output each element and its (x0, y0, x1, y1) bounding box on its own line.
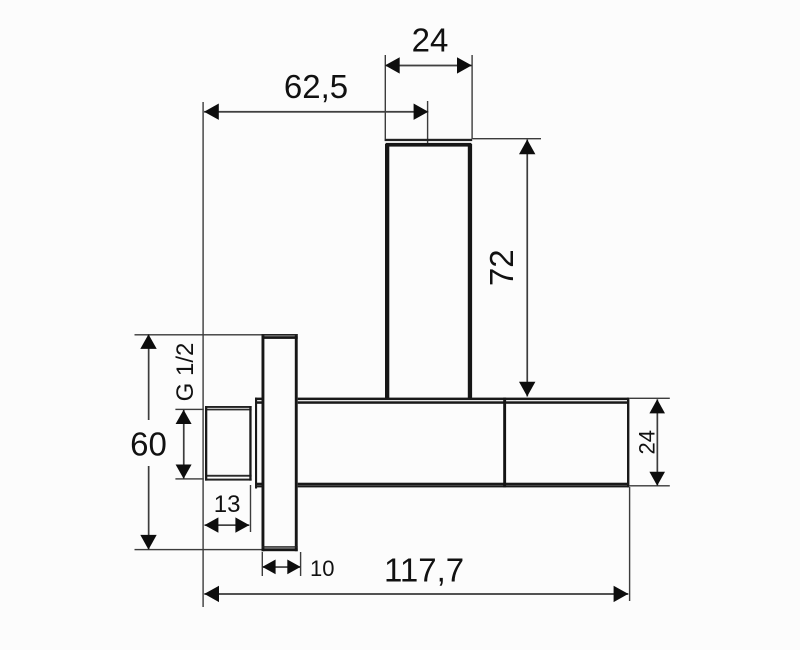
dimension 13: dimension line (205, 524, 250, 526)
dimension 60: top extension line (135, 334, 262, 335)
flange: top cap thick line (262, 336, 298, 339)
body: left end cap (255, 398, 257, 489)
dimension 13: right extension line (250, 485, 251, 532)
dimension 60: top arrowhead (140, 334, 156, 349)
body: horizontal body bottom line upper (255, 483, 629, 485)
dimension 24 top: left extension line (385, 55, 386, 139)
dimension 10: dimension line (262, 566, 300, 568)
nipple: left edge (205, 406, 207, 481)
dimension 117,7: left arrowhead (204, 586, 219, 602)
svg-text:60: 60 (130, 425, 167, 462)
dimension 24 right: bottom arrowhead (649, 472, 665, 486)
pipe body: vertical pipe top cap thick line (386, 143, 472, 147)
flange: top cap thin line (262, 334, 298, 336)
dimension 72: bottom arrowhead (519, 382, 535, 397)
dimension 24 top: right arrowhead (457, 57, 472, 73)
nipple: top thread line 2 (205, 409, 252, 411)
dimension 13: left arrowhead (205, 517, 219, 532)
svg-text:10: 10 (310, 556, 334, 581)
svg-text:G 1/2: G 1/2 (172, 343, 199, 402)
body: horizontal body bottom line lower (255, 485, 629, 487)
flange: bottom cap thick line (262, 548, 298, 551)
flange: bottom cap thin line (262, 546, 298, 548)
dimension 10: left arrowhead (262, 560, 275, 575)
dimension 10: left extension line (262, 552, 263, 576)
nipple: bottom thread line 2 (205, 479, 252, 481)
body: divider joint line (503, 398, 506, 488)
dimension 13: right arrowhead (235, 517, 249, 532)
dimension 117,7: right extension line (629, 487, 630, 601)
dimension 24 right: dimension line (657, 399, 659, 486)
pipe body: vertical inlet pipe left wall (385, 144, 389, 398)
node: pipe centre stub line (427, 101, 428, 146)
dimension 24 top: left arrowhead (385, 57, 400, 73)
dimension G 1/2: top arrowhead (176, 410, 192, 424)
dimension 24 top: dimension line (385, 65, 472, 67)
nipple: bottom thread line 1 (205, 475, 252, 477)
dimension 10: right arrowhead (287, 560, 300, 575)
body: horizontal body top line upper (255, 398, 629, 401)
dimension 60: dimension line (148, 334, 150, 549)
dimension 72: dimension line (526, 140, 528, 397)
dimension G 1/2: dimension line (183, 410, 185, 479)
pipe body: vertical inlet pipe right wall (468, 144, 472, 398)
nipple: threaded G1/2 nipple white fill (205, 406, 252, 481)
dimension G 1/2: top extension line (175, 409, 203, 410)
svg-text:24: 24 (412, 21, 449, 58)
svg-text:13: 13 (214, 491, 241, 518)
body: horizontal body top line lower (255, 401, 629, 404)
dimension 117,7: right arrowhead (614, 586, 629, 602)
dimension G 1/2: bottom arrowhead (176, 465, 192, 479)
body: right end cap (627, 398, 629, 488)
dimension 24 top: right extension line (471, 55, 472, 139)
dimension 24 right: top extension line (629, 398, 669, 399)
dimension G 1/2: bottom extension line (175, 478, 203, 479)
svg-text:117,7: 117,7 (384, 551, 464, 588)
dimension 62,5: left arrowhead (204, 104, 219, 120)
dimension 60: label background mask (127, 420, 170, 466)
dimension 62,5: right arrowhead (414, 104, 429, 120)
dimension 24 right: top arrowhead (649, 399, 665, 413)
pipe body: vertical pipe top cap thin line (385, 139, 473, 141)
svg-text:24: 24 (635, 430, 660, 454)
dimension 10: right extension line (300, 552, 301, 576)
wire: wall reference extension line (202, 102, 203, 607)
dimension 24 right: bottom extension line (629, 485, 669, 486)
flange: left edge (262, 334, 265, 551)
svg-text:72: 72 (483, 249, 520, 286)
dimension 62,5: dimension line (204, 111, 428, 113)
dimension 72: top extension line (473, 138, 542, 139)
flange: right edge (295, 334, 298, 551)
nipple: right edge (249, 406, 251, 481)
dimension 60: bottom extension line (135, 549, 262, 550)
dimension 72: top arrowhead (519, 140, 535, 155)
svg-text:62,5: 62,5 (284, 68, 348, 105)
dimension 60: bottom arrowhead (140, 535, 156, 550)
flange: wall plate white fill covering body (262, 334, 298, 551)
nipple: top thread line 1 (205, 406, 252, 408)
dimension 117,7: dimension line (204, 593, 628, 595)
